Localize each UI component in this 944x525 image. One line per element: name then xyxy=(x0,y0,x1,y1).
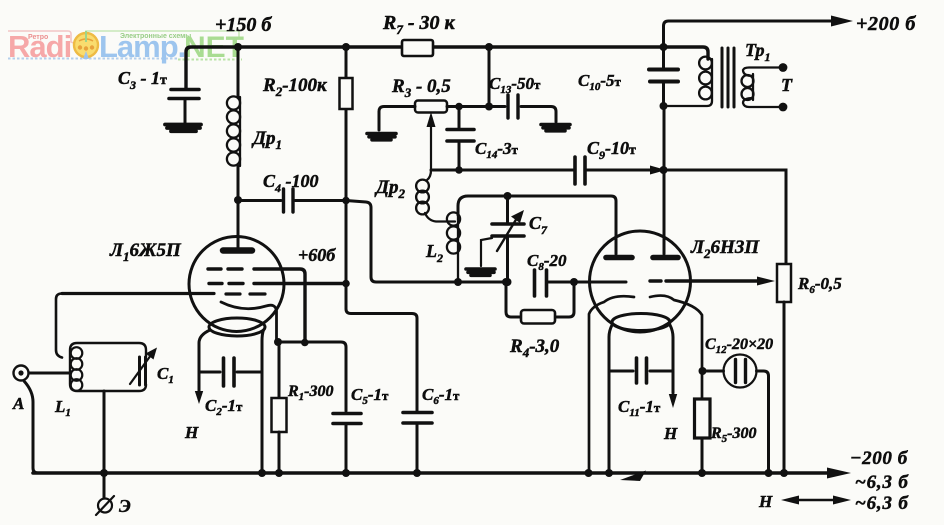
wire R1 upper lead xyxy=(278,342,281,398)
wire C6 lower lead xyxy=(416,424,419,473)
trimmer arrow C1 xyxy=(130,355,151,384)
inductor Dr1 xyxy=(239,97,241,166)
svg-text:R4-3,0: R4-3,0 xyxy=(509,336,560,360)
svg-text:+150 б: +150 б xyxy=(215,14,272,36)
resistor R4 body xyxy=(521,310,555,324)
anode left of V2 xyxy=(606,255,632,261)
grid 3 row of V1 from L1 xyxy=(62,292,265,296)
node +200 tap xyxy=(660,43,668,51)
svg-text:А: А xyxy=(12,394,24,413)
svg-text:Л26Н3П: Л26Н3П xyxy=(690,237,760,261)
wire C12 right lead xyxy=(757,371,769,473)
grid 1 row of V1 xyxy=(208,269,305,343)
svg-text:Т: Т xyxy=(781,75,793,95)
heater left lead of V1 xyxy=(199,330,210,392)
logo green frame xyxy=(86,31,239,40)
wire tank ground branch xyxy=(481,238,492,266)
wire C12 left lead xyxy=(703,370,724,373)
wire C4 left lead xyxy=(238,199,281,202)
arrow ground rail right end xyxy=(827,468,851,479)
svg-text:Электронные схемы: Электронные схемы xyxy=(120,33,191,40)
resistor R3 body xyxy=(415,101,447,113)
wire C5 lower lead xyxy=(345,425,348,473)
wire C4 right lead xyxy=(295,199,346,202)
ground rail bottom xyxy=(33,471,828,475)
wire cathode bus y342 xyxy=(277,342,347,411)
arrow heater V2 xyxy=(669,394,677,408)
capacitor C14 plates xyxy=(447,130,474,142)
logo lamp circle xyxy=(74,33,98,57)
wire R6 lower lead xyxy=(783,302,786,473)
svg-text:+200 б: +200 б xyxy=(856,13,916,35)
rail junction nodes xyxy=(258,469,266,477)
resistor R7 body xyxy=(402,40,433,56)
heater right lead of V2 xyxy=(670,325,673,393)
wire A down to ground rail xyxy=(24,381,38,473)
wire C10 bottom lead xyxy=(662,83,665,106)
inductor L1 coil xyxy=(71,347,83,359)
capacitor C10 plates xyxy=(649,70,678,82)
svg-text:R7 - 30 к: R7 - 30 к xyxy=(382,12,456,37)
capacitor C8 plates in grid rail xyxy=(535,270,547,296)
resistor R5 body xyxy=(695,399,711,438)
ground right of C13 xyxy=(541,125,570,131)
capacitor C3 plates xyxy=(169,90,199,99)
tube V1 envelope xyxy=(189,237,284,332)
node +60 screen junction xyxy=(342,280,350,288)
svg-text:Э: Э xyxy=(119,496,131,516)
wire C3 lower lead xyxy=(184,99,187,123)
trimmer arrow C7 xyxy=(497,218,517,251)
arrow heater V1 xyxy=(195,391,203,404)
node C7 top xyxy=(504,192,512,200)
ground below C3 xyxy=(165,125,201,132)
logo green dotted underline xyxy=(178,59,242,61)
heater ellipse of V2 xyxy=(612,314,670,331)
svg-text:R3 - 0,5: R3 - 0,5 xyxy=(391,76,451,100)
wire R1 lower lead xyxy=(278,432,281,473)
node C4 tap xyxy=(234,196,242,204)
capacitor C12 in circle xyxy=(724,355,757,388)
svg-text:Н: Н xyxy=(663,424,678,443)
node transformer primary bottom xyxy=(660,102,668,110)
capacitor C11 plates xyxy=(637,358,647,383)
svg-text:R6-0,5: R6-0,5 xyxy=(797,274,842,296)
node C14 bottom on feed line xyxy=(455,166,463,174)
heater left lead of V2 xyxy=(609,325,612,473)
svg-text:~6,3 б: ~6,3 б xyxy=(855,472,909,493)
wire C2 left lead xyxy=(199,371,220,374)
node C4 / +60 line crossing xyxy=(342,197,350,205)
cathode left arc of V2 xyxy=(589,296,634,473)
wire C14 upper lead xyxy=(458,107,461,129)
node R4 left xyxy=(502,278,510,286)
node C14 top xyxy=(455,103,463,111)
wire C10 top lead xyxy=(662,47,665,69)
logo watermark RadioLamp.NET xyxy=(8,29,244,64)
capacitor C9 plates xyxy=(575,157,585,184)
wire C4 to oscillator grid rail xyxy=(346,201,506,283)
capacitor C7 plates (trimmer) xyxy=(492,224,524,236)
wire R3 left lead to ground xyxy=(379,107,415,131)
wire +150V top rail xyxy=(186,47,708,89)
transformer Tr1 secondary xyxy=(752,74,754,100)
svg-text:Н: Н xyxy=(184,423,199,442)
grid right of V2 to R6 xyxy=(650,279,757,282)
earth terminal xyxy=(98,499,112,513)
svg-text:+60б: +60б xyxy=(298,245,336,265)
node top rail / Dr1 xyxy=(234,43,242,51)
inductor L2 xyxy=(457,215,459,282)
anode right of V2 xyxy=(653,255,678,261)
logo blue dotted underline xyxy=(8,58,177,60)
wire rail to C13 xyxy=(488,47,491,107)
cathode arc of V1 xyxy=(221,302,277,342)
logo lamp stem xyxy=(85,31,87,42)
capacitor C5 plates xyxy=(333,414,361,424)
resistor R1 body xyxy=(272,398,287,432)
node L2 bottom xyxy=(454,278,462,286)
arrow +200 xyxy=(831,16,853,27)
capacitor C4 plates xyxy=(284,189,294,212)
wiper arrow of R3 xyxy=(430,127,432,170)
ground below R3 xyxy=(367,134,396,140)
node anode feeder crossing xyxy=(660,166,668,174)
node R2 top xyxy=(342,43,350,51)
heater right lead of V1 xyxy=(262,330,264,473)
svg-text:R2-100к: R2-100к xyxy=(262,75,328,99)
svg-text:Н: Н xyxy=(758,492,773,511)
ground of tank xyxy=(466,269,495,275)
wire grid rail right of C8 into V2 grid xyxy=(549,281,627,284)
capacitor C6 plates xyxy=(403,413,432,424)
wire A to L1 xyxy=(29,372,70,375)
wire R2 feed and +60 screen line xyxy=(346,47,417,411)
capacitor C2 plates xyxy=(224,358,235,386)
wire C11 right lead xyxy=(650,370,673,373)
transformer Tr1 primary xyxy=(666,59,712,106)
svg-text:Л16Ж5П: Л16Ж5П xyxy=(109,240,182,264)
anode of V1 xyxy=(223,247,252,254)
node screen bypass junction xyxy=(301,339,309,347)
arrow into R6 xyxy=(757,277,775,286)
capacitor C1 plates (variable) xyxy=(140,357,146,385)
double arrow heater supply xyxy=(797,499,835,501)
resistor R6 body xyxy=(777,264,791,302)
resistor R2 body xyxy=(340,78,353,109)
tank box L1 xyxy=(70,343,146,391)
arrow on ground rail pointing left xyxy=(620,471,646,482)
wire oscillator feed line y170 xyxy=(431,170,786,264)
wire right anode riser xyxy=(663,106,666,254)
wire Dr1 top lead xyxy=(237,47,240,97)
svg-text:C8-20: C8-20 xyxy=(527,251,567,273)
wire L2 top to left anode of V2 xyxy=(458,196,616,254)
node C12 left xyxy=(699,367,707,375)
wire C14 lower lead xyxy=(458,143,461,170)
wire C11 left lead xyxy=(609,370,633,373)
tube V2 envelope xyxy=(590,231,691,332)
capacitor C13 plates xyxy=(508,95,518,118)
wire +200 riser xyxy=(664,21,835,47)
node R3/C13 junction xyxy=(485,103,493,111)
wire R3 right lead xyxy=(447,105,505,108)
svg-text:−200 б: −200 б xyxy=(850,448,909,469)
wire L1 bottom to earth xyxy=(103,391,106,498)
arrow on feed line xyxy=(650,166,666,175)
wire R5 lower lead xyxy=(701,438,704,473)
wire C2 right lead xyxy=(237,371,262,374)
output terminal dots of Tr1 xyxy=(779,63,788,72)
wire R4 bypass loop xyxy=(506,282,574,317)
node C13 feeder on rail xyxy=(485,43,493,51)
inductor Dr2 xyxy=(427,170,431,180)
logo pink frame xyxy=(8,31,76,44)
node cathode corner xyxy=(274,338,282,346)
svg-text:~6,3 б: ~6,3 б xyxy=(855,493,909,514)
grid 2 row of V1 to +60 node xyxy=(209,282,346,285)
node R4 right xyxy=(570,278,578,286)
wire C7 upper lead xyxy=(506,196,509,222)
svg-text:Ретро: Ретро xyxy=(28,34,48,41)
cathode right arc of V2 xyxy=(650,296,702,399)
wire C7 lower lead xyxy=(506,238,509,282)
heater ellipse of V1 xyxy=(209,318,265,336)
wire C13 right lead to ground xyxy=(521,107,556,123)
transformer Tr1 core xyxy=(722,48,734,107)
node C7 bottom xyxy=(504,278,512,286)
node earth tap on rail xyxy=(100,469,108,477)
svg-text:C13-50т: C13-50т xyxy=(489,74,541,96)
wire L1 to grid riser xyxy=(56,294,62,358)
wire Dr1 to anode V1 xyxy=(237,166,240,248)
antenna terminal A xyxy=(14,366,29,381)
